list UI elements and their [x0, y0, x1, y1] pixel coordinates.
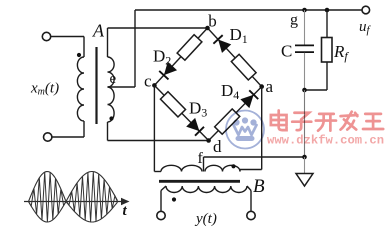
watermark char — [341, 112, 358, 130]
svg-text:A: A — [92, 21, 105, 41]
wire B primary left lead — [161, 186, 166, 191]
output terminal — [362, 6, 370, 14]
box on arm D3 — [160, 92, 185, 117]
bridge arm D4 (d to a) — [204, 82, 266, 145]
node d — [206, 138, 211, 143]
wire e tap to top rail — [108, 86, 136, 88]
svg-text:b: b — [208, 12, 217, 31]
bridge arm D1 (a to b) — [203, 24, 266, 91]
svg-text:g: g — [290, 12, 298, 29]
polarity dot primary A — [77, 53, 81, 57]
terminal y(t) right — [247, 211, 255, 219]
input terminal top — [42, 32, 50, 40]
box on arm D2 — [177, 35, 202, 61]
waveform envelope top — [29, 172, 118, 202]
svg-text:y(t): y(t) — [194, 211, 217, 227]
diode D1 — [214, 36, 230, 52]
wire — [208, 28, 262, 87]
bridge arm D2 (b to c) — [150, 24, 212, 90]
wire — [154, 28, 207, 85]
polarity dot secondary B — [231, 164, 235, 168]
waveform axis arrow — [121, 198, 130, 205]
svg-text:B: B — [253, 176, 265, 197]
watermark logo W mark — [234, 118, 257, 141]
wire — [154, 85, 208, 140]
wire to ground — [304, 157, 306, 174]
waveform axis — [24, 201, 123, 203]
svg-text:e: e — [110, 71, 117, 87]
watermark char — [363, 114, 383, 129]
wire C branch upper — [304, 10, 306, 45]
waveform envelope bottom — [29, 202, 118, 223]
transformer T-B primary winding — [166, 186, 247, 193]
resistor Rf — [322, 38, 333, 63]
transformer T-A primary winding — [77, 57, 84, 121]
svg-text:xm(t): xm(t) — [30, 81, 59, 98]
transformer T-A secondary winding lower half — [108, 87, 115, 122]
wire a to B winding right — [261, 87, 263, 170]
watermark char — [316, 114, 336, 131]
box on arm D1 — [231, 54, 256, 80]
box on arm D4 — [215, 109, 240, 134]
wire secondary-bottom to node d — [107, 122, 109, 141]
terminal y(t) left — [157, 211, 165, 219]
wire — [83, 121, 85, 137]
wire C branch lower — [304, 53, 306, 90]
wire B primary right lead — [247, 186, 251, 191]
wire — [209, 87, 262, 141]
svg-text:C: C — [281, 42, 292, 61]
wire bottom rail of filter — [305, 89, 328, 91]
wire — [51, 36, 84, 38]
bridge arm D3 (c to d) — [150, 81, 213, 145]
svg-text:www.dzkfw.com.cn: www.dzkfw.com.cn — [267, 134, 384, 148]
polarity dot primary B — [172, 197, 176, 201]
capacitor C plates — [295, 44, 314, 46]
svg-text:f: f — [198, 150, 204, 167]
transformer T-B core — [159, 180, 240, 183]
node a — [259, 84, 264, 89]
transformer T-A core — [95, 47, 97, 124]
junction dot filter bottom — [302, 88, 307, 93]
watermark logo circle — [226, 111, 264, 149]
top rail wire — [135, 9, 362, 11]
ground — [296, 174, 313, 187]
diode D2 — [160, 62, 176, 78]
watermark char — [292, 113, 311, 130]
wire center tap f — [203, 157, 205, 172]
node g dot — [302, 8, 307, 13]
wire filter bottom to ground net — [304, 90, 306, 157]
svg-text:d: d — [213, 137, 222, 156]
wire Rf lower — [326, 62, 328, 90]
diode D4 — [241, 91, 257, 107]
junction dot Rf top — [325, 8, 330, 13]
transformer T-B secondary winding left half — [161, 165, 202, 171]
wire c to B winding left — [153, 85, 155, 171]
junction dot ground net — [302, 155, 307, 160]
wire secondary-top to node b — [107, 28, 109, 57]
watermark char — [271, 111, 287, 131]
polarity dot secondary A — [109, 116, 113, 120]
wire Rf upper — [326, 10, 328, 38]
waveform carrier — [29, 172, 118, 222]
diode D3 — [187, 118, 203, 134]
svg-text:a: a — [266, 77, 274, 96]
node c — [152, 83, 157, 88]
transformer T-A secondary winding upper half — [108, 57, 115, 87]
wire — [83, 37, 85, 58]
wire — [52, 136, 84, 138]
svg-text:c: c — [144, 72, 152, 91]
transformer T-B secondary winding right half — [205, 165, 240, 171]
node b — [205, 26, 210, 31]
input terminal bottom — [44, 133, 52, 141]
